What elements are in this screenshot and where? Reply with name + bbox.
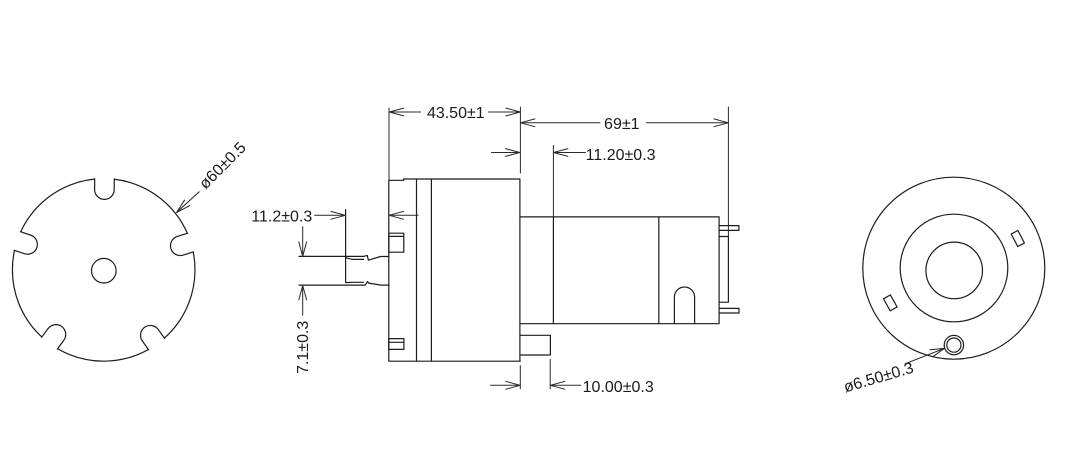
ext line pump left bbox=[388, 108, 390, 180]
terminal pin top bbox=[719, 226, 739, 231]
dim 43.50 line bbox=[389, 111, 520, 113]
pump internal vertical lines bbox=[417, 179, 432, 361]
svg-text:10.00±0.3: 10.00±0.3 bbox=[583, 379, 654, 396]
dim 7.1 arrows bbox=[299, 227, 307, 257]
dim 10.00 ext lines bbox=[520, 359, 550, 388]
dim 11.2 arrows bbox=[315, 211, 346, 219]
dim 11.20 arrows bbox=[492, 149, 520, 157]
terminal pin bottom bbox=[719, 308, 739, 313]
nozzle bottom profile bbox=[299, 282, 389, 286]
port outer bbox=[944, 335, 963, 354]
nozzle top profile bbox=[299, 255, 389, 260]
ext line motor end bbox=[727, 107, 729, 237]
notch lower-left bbox=[37, 321, 70, 355]
svg-text:11.20±0.3: 11.20±0.3 bbox=[586, 147, 656, 164]
motor body bbox=[520, 217, 719, 324]
ext line pump right bbox=[519, 107, 521, 173]
dim 10.00 arrows bbox=[491, 381, 521, 389]
leader arrow dia6.50 bbox=[905, 348, 944, 363]
notch top bbox=[95, 171, 115, 200]
svg-text:43.50±1: 43.50±1 bbox=[427, 105, 485, 122]
motor U slot bbox=[674, 287, 694, 324]
svg-text:69±1: 69±1 bbox=[604, 116, 640, 133]
pump front view outer circle bbox=[12, 179, 195, 362]
motor rear view outer circle bbox=[863, 177, 1045, 359]
pump body side outline bbox=[389, 179, 521, 361]
motor rear middle circle bbox=[900, 214, 1008, 322]
port inner bbox=[947, 338, 961, 352]
clamp screw upper bbox=[389, 233, 404, 252]
dim 69 line bbox=[520, 122, 728, 124]
vent slot right bbox=[1011, 230, 1024, 246]
leader arrow dia60 bbox=[177, 192, 200, 213]
motor end cap bbox=[719, 237, 728, 303]
notch lower-right bbox=[137, 322, 169, 357]
nozzle tip face bbox=[345, 210, 347, 283]
svg-text:7.1±0.3: 7.1±0.3 bbox=[295, 321, 312, 374]
motor rear inner circle bbox=[926, 242, 983, 299]
hub circle bbox=[92, 258, 117, 283]
ext line motor front bbox=[552, 146, 554, 217]
motor section lines bbox=[553, 217, 658, 324]
notch upper-right bbox=[168, 231, 201, 258]
svg-text:11.2±0.3: 11.2±0.3 bbox=[251, 208, 312, 225]
mounting tab bbox=[520, 335, 551, 355]
vent slot left bbox=[884, 295, 898, 311]
notch upper-left bbox=[7, 229, 40, 257]
clamp screw lower bbox=[389, 339, 404, 350]
